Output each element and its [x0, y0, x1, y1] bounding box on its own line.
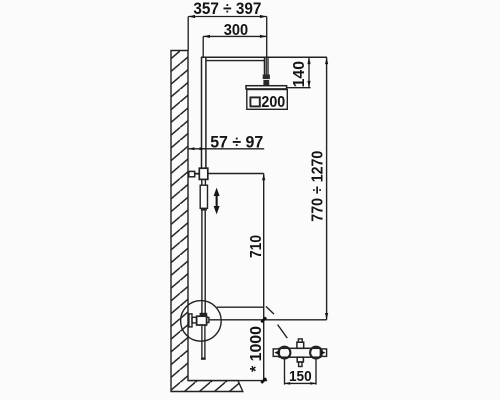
svg-text:300: 300 [224, 22, 248, 39]
mixer body [279, 348, 320, 357]
dim 710 bottom extension [217, 306, 264, 308]
mixer level line [209, 319, 327, 321]
mixer right end cap [321, 349, 327, 357]
dim 140 bottom extension [287, 87, 311, 89]
mixer right knob [310, 347, 322, 359]
mixer top fitting [297, 342, 304, 348]
dim 357-397 line [188, 16, 267, 18]
svg-text:357 ÷ 397: 357 ÷ 397 [193, 0, 261, 18]
dim 150 line [285, 382, 317, 384]
wall (hatched) with floor [171, 51, 243, 392]
svg-text:200: 200 [261, 94, 285, 111]
svg-text:710: 710 [248, 235, 265, 258]
supply valve body [197, 316, 207, 325]
dim 710 top extension [208, 173, 264, 175]
dim 140 line [308, 57, 310, 87]
shower head stem [263, 57, 265, 74]
sliding sleeve [201, 179, 203, 185]
main vertical dimension line [263, 174, 265, 381]
mixer bottom fitting [297, 357, 303, 362]
adjustability double arrow [214, 188, 220, 215]
dim 300 extension line left [202, 36, 204, 57]
dim 150 extension lines [284, 359, 286, 385]
riser lower tube [201, 211, 203, 313]
outlet pipe below valve [201, 325, 203, 358]
valve wall flange [189, 314, 192, 327]
dim 57-97 line [188, 148, 264, 150]
valve right cap [207, 317, 209, 322]
wall bracket [189, 171, 195, 176]
svg-text:150: 150 [289, 368, 312, 385]
dim 357-397 extension line left [187, 17, 189, 51]
svg-text:770 ÷ 1270: 770 ÷ 1270 [310, 151, 327, 222]
tick at 1000 top [261, 317, 266, 322]
svg-text:* 1000: * 1000 [248, 326, 265, 372]
mixer left knob [279, 347, 291, 359]
floor reference line [188, 380, 267, 382]
shower head plate [246, 86, 287, 89]
column clamp at bracket [199, 168, 208, 179]
tick at 1000 bottom [261, 378, 266, 383]
dim 300 line [203, 35, 267, 37]
supply valve top nut [200, 313, 208, 316]
dim right extension line (shared) [266, 17, 268, 58]
riser column upper tube [201, 57, 203, 168]
square symbol [250, 97, 259, 106]
shower arm (top horizontal pipe) [201, 56, 327, 58]
shower head connector nut [263, 75, 270, 80]
svg-text:57 ÷ 97: 57 ÷ 97 [210, 134, 263, 152]
valve neck [192, 317, 197, 323]
head label box [247, 90, 287, 110]
dim 770-1270 line [326, 57, 328, 320]
svg-text:140: 140 [291, 61, 308, 88]
detail circle around valve [181, 301, 222, 342]
leader to mixer detail [266, 306, 274, 314]
mixer left end cap [273, 349, 279, 357]
